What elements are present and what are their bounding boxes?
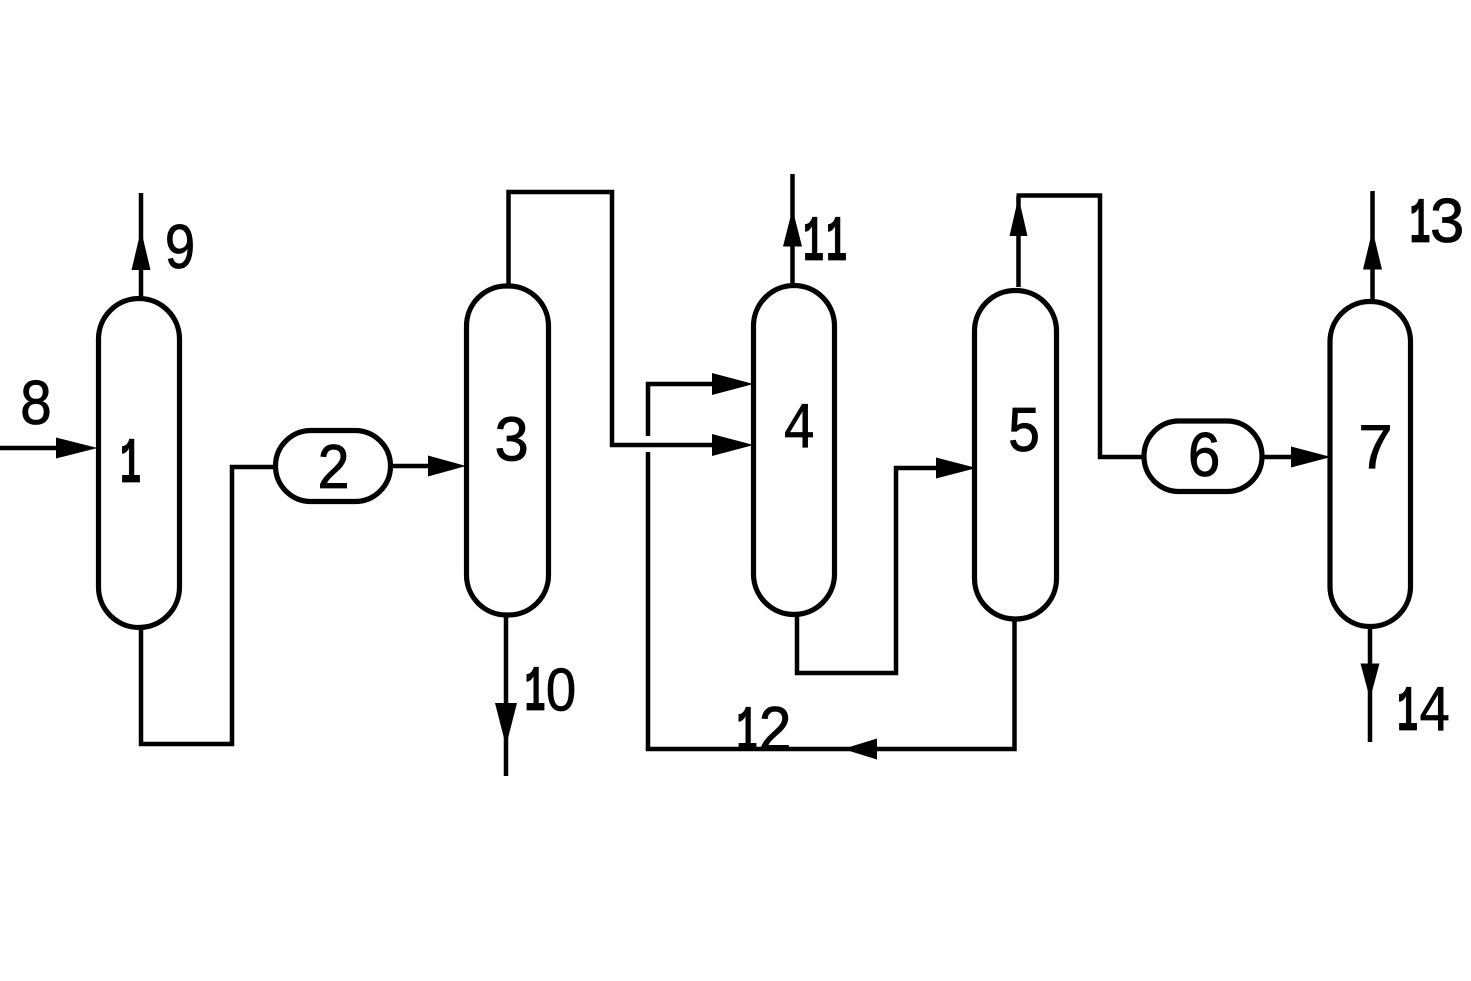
- svg-text:1: 1: [736, 695, 757, 769]
- wire upper feed into vessel 4 from recycle riser: [648, 384, 716, 436]
- wire stream 13 overhead of vessel 7: [1370, 191, 1375, 299]
- vessel 4 (column): [754, 286, 835, 615]
- vessel 6 (drum): [1144, 421, 1262, 492]
- svg-text:2: 2: [757, 696, 792, 770]
- svg-text:8: 8: [19, 371, 53, 445]
- vessel 7 (column): [1330, 302, 1411, 627]
- wire vessel 6 outlet: [1264, 455, 1295, 460]
- arrow vessel 5 overhead up: [1010, 197, 1028, 236]
- wire vessel 4 bottoms to vessel 5: [797, 468, 938, 673]
- wire vessel 3 overhead to vessel 4 lower inlet: [509, 192, 717, 445]
- wire stream 14 bottoms of vessel 7: [1368, 629, 1373, 742]
- wire stream 11 overhead of vessel 4: [790, 174, 795, 283]
- svg-text:9: 9: [164, 215, 197, 289]
- svg-text:4: 4: [783, 394, 816, 468]
- svg-text:5: 5: [1007, 398, 1041, 471]
- wire stream 8 feed line: [0, 446, 58, 451]
- svg-text:1: 1: [1397, 675, 1418, 749]
- svg-text:1: 1: [1409, 187, 1430, 261]
- wire vessel 5 overhead riser: [1016, 196, 1021, 287]
- vessel 3 (column): [467, 286, 549, 615]
- arrow upper inlet into vessel 4: [712, 373, 754, 395]
- arrow stream 14 down: [1361, 664, 1380, 700]
- arrow stream 11 up: [783, 209, 802, 247]
- arrow stream 13 up: [1363, 230, 1382, 270]
- wire vessel 2 outlet: [392, 464, 432, 469]
- wire stream 12 recycle from vessel 5 bottoms: [648, 621, 1015, 749]
- wire vessel 1 bottoms to vessel 2: [141, 467, 273, 744]
- arrow into vessel 5: [936, 458, 977, 479]
- svg-text:3: 3: [493, 407, 530, 481]
- arrow stream 10 down: [495, 703, 517, 746]
- vessel 5 (column): [975, 291, 1057, 620]
- arrow stream 12 left: [843, 739, 877, 760]
- svg-text:1: 1: [120, 427, 141, 501]
- svg-text:6: 6: [1186, 422, 1221, 496]
- svg-text:2: 2: [316, 435, 350, 508]
- svg-text:1: 1: [826, 205, 847, 279]
- svg-text:1: 1: [524, 655, 545, 729]
- wire stream 9 overhead of vessel 1: [139, 193, 144, 296]
- vessel 2 (drum): [276, 431, 391, 502]
- svg-text:3: 3: [1428, 189, 1465, 263]
- arrow stream 8 into vessel 1: [56, 438, 98, 459]
- arrow into vessel 3: [428, 456, 466, 477]
- wire vessel 5 overhead to vessel 6: [1017, 196, 1143, 458]
- arrow into vessel 7: [1291, 447, 1331, 468]
- vessel 1 (column): [99, 299, 180, 628]
- arrow stream 9 up: [132, 230, 151, 270]
- wire recycle riser lower segment: [646, 452, 651, 749]
- svg-text:4: 4: [1418, 677, 1451, 751]
- svg-text:7: 7: [1357, 415, 1395, 488]
- svg-text:1: 1: [803, 205, 824, 279]
- wire stream 10 bottoms of vessel 3: [504, 617, 509, 776]
- svg-text:0: 0: [546, 657, 576, 724]
- arrow lower inlet into vessel 4: [712, 434, 754, 456]
